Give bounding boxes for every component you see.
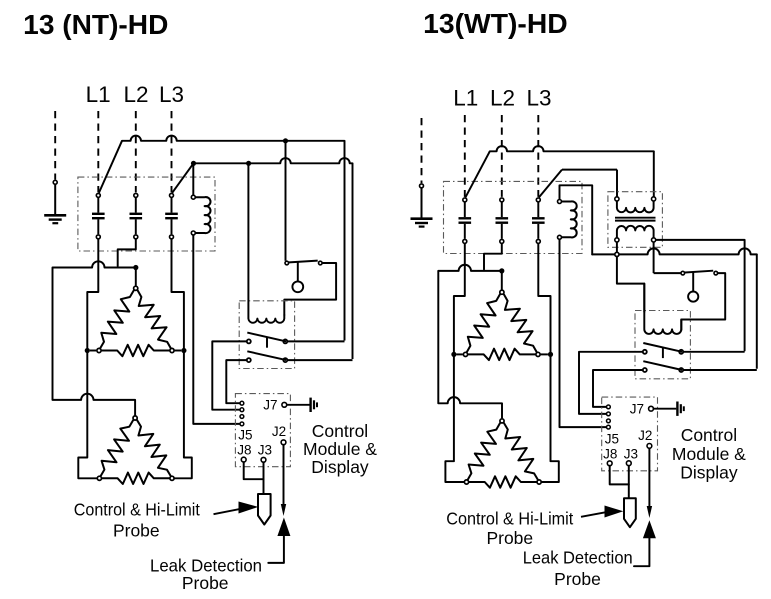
transformer T1 secondary terminals (615, 238, 619, 242)
leak detection pointer arrow (right) (643, 520, 656, 538)
resistor bank upper delta (left heating elements) (100, 291, 134, 349)
wire L3 jog to lower delta LR (left) (175, 353, 192, 478)
svg-text:Control & Hi-Limit: Control & Hi-Limit (446, 508, 573, 528)
node ground lead terminal (left) (53, 180, 57, 184)
connector J7 pin (left) (282, 402, 287, 407)
svg-text:13(WT)-HD: 13(WT)-HD (423, 8, 568, 39)
wire relay c2 to J5 pin1 (right) (593, 370, 643, 407)
svg-text:J2: J2 (638, 428, 652, 443)
contactor K1 contact L2 (right) (500, 198, 504, 202)
probe pointer arrow (left) (214, 509, 243, 515)
relay K2 enclosure (left) (239, 301, 294, 369)
inductor coil L-sense (left contactor box) (195, 197, 210, 233)
svg-text:Probe: Probe (113, 521, 160, 541)
wire L2 supply dashed (right) (501, 115, 503, 197)
wire secondary-right drop (right) (653, 242, 655, 273)
wire lamp branch drop (left) (285, 141, 287, 261)
wire lower apex drop (left) (134, 400, 136, 416)
wire L2 jog (right) (484, 244, 502, 269)
wire sense-coil to J5 pin4 (left) (193, 235, 239, 424)
lamp DS1 (left) (292, 281, 303, 292)
contactor K1 contact L3 (right) (536, 198, 540, 202)
node ground lead terminal (right) (420, 184, 424, 188)
svg-text:L1: L1 (453, 86, 478, 111)
relay K2 coil (left) (248, 163, 284, 323)
connector J7 pin (right) (649, 406, 654, 411)
relay K2 coil (right) (644, 284, 681, 334)
wire outer-left riser (right) (437, 271, 439, 403)
wire junction to upper delta LL (left) (90, 350, 96, 352)
ground electrode dashed lead (left) (54, 111, 56, 180)
wire relay c1 to J5 pin2 (right) (579, 352, 643, 414)
wire lower apex feed with hop (left) (53, 394, 136, 400)
contactor K1 contact L1 (left) (96, 193, 100, 197)
wire L3 down-jog (left) (172, 240, 184, 349)
transformer T1 enclosure (right) (608, 192, 663, 248)
wire feeder-1 horizontal with hops (right) (490, 146, 654, 151)
wire sense-coil top link (right) (560, 185, 593, 254)
wire relay c1 right feed (right) (683, 351, 744, 353)
svg-text:Control: Control (681, 425, 737, 445)
wire feeder-2 horizontal with hops (left) (194, 158, 353, 163)
wire cross-feed upper apex with hop (right) (438, 265, 502, 271)
wire L1 supply dashed (left) (97, 111, 99, 192)
node junction upper apex feed (left) (133, 265, 138, 270)
wire junction to upper delta LR (left) (175, 350, 182, 352)
resistor bank lower delta (right heating elements) (468, 423, 500, 480)
wire secondary-left link (right) (616, 242, 618, 252)
resistor bank lower delta (left heating elements) (101, 420, 134, 476)
contactor K1 contact L1 (right) (463, 198, 467, 202)
node junction L3/upper-delta (left) (181, 348, 186, 353)
connector J3 pin (right) (626, 461, 631, 466)
svg-text:Leak Detection: Leak Detection (523, 548, 633, 568)
svg-text:L2: L2 (490, 86, 515, 111)
wire L1 down-jog (left) (87, 240, 98, 349)
wire pilot switch return (left) (284, 263, 336, 315)
wire relay c2 to J5 pin1 (left) (226, 360, 246, 403)
svg-text:Control & Hi-Limit: Control & Hi-Limit (74, 500, 200, 520)
svg-text:J7: J7 (263, 398, 277, 413)
connector J2 pin (left) (281, 440, 286, 445)
svg-text:L2: L2 (123, 82, 148, 107)
node junction L1/upper-delta (right) (451, 352, 456, 357)
svg-text:J8: J8 (237, 442, 251, 457)
probe pointer arrow (right) (581, 512, 608, 517)
contactor K1 contact L2 (left) (134, 193, 138, 197)
relay K2 actuator link (left) (266, 337, 268, 348)
wire L1 supply dashed (right) (464, 115, 466, 197)
relay K2 contact 1 (right) (643, 350, 647, 354)
wire lamp stem (left) (297, 262, 299, 281)
relay K2 actuator link (right) (662, 347, 664, 358)
transformer T1 secondary winding (617, 226, 654, 238)
svg-text:J8: J8 (603, 446, 617, 461)
svg-text:J3: J3 (624, 447, 638, 462)
wire lower apex feed with hop (right) (438, 397, 502, 403)
wire relay c2 right feed (right) (683, 369, 756, 371)
lamp DS1 (right) (688, 292, 698, 302)
wire sense-coil to J5 pin4 (right) (560, 240, 607, 428)
transformer T1 core (615, 217, 656, 219)
wire J2 leak sense (right) (648, 448, 650, 507)
svg-text:J7: J7 (630, 401, 644, 416)
svg-text:Display: Display (680, 463, 738, 483)
transformer T1 primary terminals (615, 197, 619, 201)
connector J2 pin (right) (647, 444, 652, 449)
relay K2 contact 2 (left) (247, 358, 251, 362)
control module enclosure (left) (235, 394, 290, 467)
wire J7 to chassis ground (left) (287, 404, 310, 406)
svg-text:Control: Control (312, 421, 368, 441)
svg-text:L3: L3 (526, 86, 551, 111)
wire L3 supply dashed (left) (171, 111, 173, 192)
wire lamp stem (right) (692, 272, 694, 291)
wire ground stem (right) (421, 188, 423, 218)
wire feeder-2 drop to relay NO contact (left) (352, 163, 354, 359)
wire coil-top link (left) (192, 163, 194, 195)
wire junction to relay coil (right) (617, 257, 644, 312)
contactor K1 enclosure (right) (444, 181, 583, 253)
svg-text:Module &: Module & (303, 439, 377, 459)
wire L2 jog (left) (118, 240, 136, 267)
chassis ground symbol (left) (309, 398, 311, 412)
wire relay c1 to J5 pin2 (left) (212, 341, 246, 409)
wire feeder-2 horizontal (right) (562, 169, 617, 171)
wire L3 supply dashed (right) (537, 115, 539, 197)
svg-text:Probe: Probe (182, 573, 229, 593)
svg-text:J5: J5 (605, 432, 619, 447)
wire L1 jog to lower delta LL (right) (445, 357, 463, 482)
chassis ground symbol (right) (676, 402, 678, 416)
relay K2 contact 2 (right) (643, 368, 647, 372)
wire J3 to probe (left) (263, 462, 265, 494)
svg-text:J3: J3 (258, 443, 272, 458)
wire feeder-1 drop to pilot switch (left) (344, 141, 346, 341)
svg-text:13 (NT)-HD: 13 (NT)-HD (23, 9, 168, 40)
wire relay c1 right feed (left) (288, 340, 345, 342)
transformer T1 primary winding (617, 201, 654, 212)
relay K2 enclosure (right) (635, 311, 690, 379)
wire L3 feeder diagonal (right) (539, 170, 562, 198)
wire L1 jog to lower delta LL (left) (78, 353, 96, 478)
arrowhead J2 down (left) (281, 504, 286, 516)
contactor K1 contact L3 (left) (170, 193, 174, 197)
wire junction to upper delta LR (right) (541, 353, 548, 355)
node junction L3/upper-delta (right) (548, 352, 553, 357)
wire J8 to probe (left) (244, 462, 264, 479)
svg-text:L1: L1 (86, 82, 111, 107)
connector J8 pin (left) (241, 457, 246, 462)
wire coil path drop to relay contact2 (right) (756, 254, 758, 368)
svg-text:Probe: Probe (554, 569, 601, 589)
wire upper apex drop (right) (501, 271, 503, 290)
wire secondary-right feed (right) (656, 240, 745, 351)
wire J7 to chassis ground (right) (654, 408, 677, 410)
ground symbol (right) (411, 217, 433, 220)
connector J5 pins (left) (240, 401, 244, 405)
wire L3 feeder diagonal (left) (172, 163, 193, 193)
control module enclosure (right) (602, 397, 658, 471)
ground symbol (left) (44, 214, 66, 217)
wire secondary-right to pilot switch (right) (654, 272, 681, 274)
wire L1 feeder diagonal (left) (99, 141, 122, 193)
wire feeder-1 horizontal with hops (left) (122, 136, 345, 141)
connector J5 pins (right) (607, 405, 611, 409)
wire L3 jog to lower delta LR (right) (542, 357, 559, 482)
connector J8 pin (right) (607, 461, 612, 466)
node junction L1/upper-delta (left) (85, 348, 90, 353)
svg-text:J2: J2 (272, 424, 286, 439)
relay K2 contact 1 (left) (247, 339, 251, 343)
probe control & hi-limit (right) (624, 498, 636, 527)
wire cross-feed upper apex with hop (left) (53, 261, 136, 267)
node junction feeder-2 start (left) (191, 161, 196, 166)
wire feeder-1 drop to transformer primary (right) (653, 151, 655, 196)
wire coil path horizontal with hops (right) (592, 248, 757, 254)
switch S1 pilot (left) (285, 261, 289, 265)
wire L1 feeder diagonal (right) (465, 151, 489, 197)
leak detection pointer arrow (left) (277, 518, 290, 537)
svg-text:J5: J5 (238, 428, 252, 443)
contactor K1 enclosure (left) (78, 177, 215, 251)
wire ground stem (left) (54, 185, 56, 215)
wire L3 down-jog (right) (538, 244, 550, 352)
ground electrode dashed lead (right) (421, 118, 423, 183)
node junction feeder-2/relay coil (left) (246, 161, 251, 166)
wire upper apex drop (left) (135, 268, 137, 286)
wire J2 leak sense (left) (283, 445, 285, 505)
connector J3 pin (left) (261, 457, 266, 462)
svg-text:Module &: Module & (672, 444, 746, 464)
node junction transformer secondary/coil path (right) (615, 252, 619, 256)
probe control & hi-limit (left) (258, 494, 271, 525)
arrowhead J2 down (right) (647, 506, 652, 518)
svg-text:Display: Display (311, 457, 369, 477)
wire L2 supply dashed (left) (135, 111, 137, 192)
inductor coil L-sense (right contactor box) (562, 201, 577, 237)
wire pilot switch return (right) (681, 273, 725, 330)
wire J8 to probe (right) (610, 466, 629, 485)
wire feeder-2 drop to transformer primary (right) (616, 170, 618, 197)
wire L1 down-jog (right) (454, 244, 465, 352)
svg-text:L3: L3 (159, 82, 184, 107)
resistor bank upper delta (right heating elements) (467, 294, 500, 352)
switch S1 pilot (right) (681, 271, 685, 275)
node junction feeder-1/lamp branch (left) (283, 138, 288, 143)
wire J3 to probe (right) (628, 466, 630, 499)
wire outer-left riser (left) (52, 268, 54, 400)
node junction upper apex feed (right) (499, 268, 504, 273)
svg-text:Probe: Probe (486, 528, 533, 548)
wire junction to upper delta LL (right) (457, 353, 463, 355)
wire relay c2 right feed (left) (288, 359, 353, 361)
wire lower apex drop (right) (501, 403, 503, 418)
